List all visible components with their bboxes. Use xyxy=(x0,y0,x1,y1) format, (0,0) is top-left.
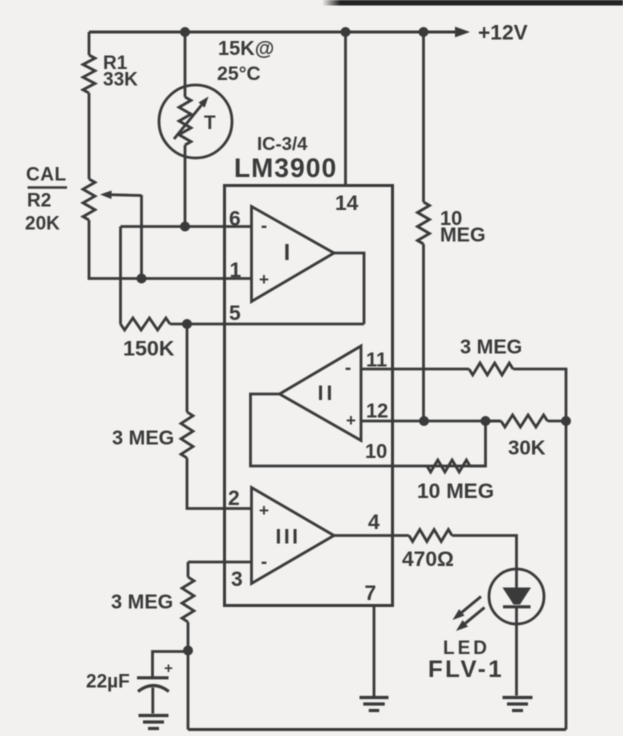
svg-text:2: 2 xyxy=(228,487,240,510)
wire 30K left node xyxy=(486,420,502,423)
wire pin3 row xyxy=(188,561,252,564)
svg-text:-: - xyxy=(261,216,267,237)
wire rail to 10MEG xyxy=(422,32,425,202)
IC U1 LM3900 outline xyxy=(225,186,393,606)
svg-text:22µF: 22µF xyxy=(86,672,130,693)
svg-text:+12V: +12V xyxy=(478,22,528,45)
node rail-thermistor xyxy=(180,27,190,37)
svg-text:3: 3 xyxy=(231,568,243,591)
svg-text:3 MEG: 3 MEG xyxy=(111,592,173,614)
svg-text:6: 6 xyxy=(229,208,241,231)
svg-text:15K@: 15K@ xyxy=(218,38,274,60)
svg-text:1: 1 xyxy=(230,259,242,282)
svg-text:470Ω: 470Ω xyxy=(402,548,454,571)
LED body circle xyxy=(489,569,544,624)
ground cap xyxy=(139,714,169,717)
svg-text:T: T xyxy=(204,113,216,134)
svg-text:R2: R2 xyxy=(27,191,51,212)
LED cathode bar xyxy=(503,605,531,608)
svg-text:CAL: CAL xyxy=(26,165,67,186)
svg-text:20K: 20K xyxy=(25,214,60,235)
resistor 30K xyxy=(501,415,548,427)
svg-text:3 MEG: 3 MEG xyxy=(112,428,174,450)
arrow to +12V xyxy=(455,27,470,38)
svg-text:12: 12 xyxy=(366,401,388,423)
svg-text:+: + xyxy=(346,411,356,430)
resistor 3MEG upper xyxy=(181,412,193,458)
node rail-pin14 xyxy=(341,27,351,37)
op-amp I triangle xyxy=(252,207,335,302)
node 150K-3MEG xyxy=(182,319,192,329)
wire 30K to right node xyxy=(548,420,567,423)
LED light arrow 2 xyxy=(465,608,484,624)
resistor 3MEG right xyxy=(469,363,513,375)
svg-text:30K: 30K xyxy=(508,437,546,460)
svg-text:IC-3/4: IC-3/4 xyxy=(257,133,308,154)
svg-text:150K: 150K xyxy=(123,337,175,361)
wire 3MEG to cap node xyxy=(187,622,190,651)
svg-text:III: III xyxy=(275,526,300,549)
wire bottom rail xyxy=(188,728,566,731)
svg-text:+: + xyxy=(164,660,173,677)
svg-text:25°C: 25°C xyxy=(217,63,261,85)
ground pin7 xyxy=(360,696,389,699)
node 30K-10MEG xyxy=(481,416,491,426)
wire 30K node down to rail xyxy=(565,421,568,730)
LED anode wire xyxy=(515,570,518,589)
node cap junction xyxy=(183,646,193,656)
op-amp III triangle xyxy=(252,488,335,584)
resistor R1 xyxy=(83,55,95,93)
thermistor T body circle xyxy=(159,85,232,158)
wire opamp II output loop xyxy=(251,394,486,466)
wire rail to R1 xyxy=(88,32,91,55)
wire 150K to pin5/feedback xyxy=(170,323,364,326)
svg-text:FLV-1: FLV-1 xyxy=(428,656,504,683)
svg-text:+: + xyxy=(259,270,269,289)
wire 10MEG to pin12 node xyxy=(422,244,425,421)
op-amp II triangle xyxy=(280,346,362,441)
svg-text:LM3900: LM3900 xyxy=(234,153,337,183)
resistor 3MEG lower xyxy=(182,577,194,622)
wire cap to ground xyxy=(151,688,154,714)
LED triangle xyxy=(503,588,532,605)
wire opamp I output feedback xyxy=(334,253,364,324)
capacitor 22uF top plate xyxy=(137,676,169,679)
svg-text:3 MEG: 3 MEG xyxy=(460,337,522,359)
node rail-10MEG xyxy=(419,27,429,37)
wire pin7 to ground xyxy=(373,606,376,697)
wire pin6 row xyxy=(121,225,252,228)
top border bar xyxy=(340,0,623,6)
wire opamp III output xyxy=(334,534,409,537)
wire wiper down xyxy=(140,195,143,279)
wire 470 to LED xyxy=(452,536,517,570)
wire rail to thermistor xyxy=(184,32,187,86)
resistor 10MEG horizontal xyxy=(427,460,470,472)
svg-text:5: 5 xyxy=(229,302,241,325)
wire pin3 down xyxy=(187,562,190,577)
wire pin1 row xyxy=(142,277,252,280)
svg-text:14: 14 xyxy=(335,192,359,215)
LED light arrow 1 xyxy=(462,597,481,613)
resistor 10MEG vertical xyxy=(418,202,430,244)
svg-text:7: 7 xyxy=(365,582,377,605)
capacitor 22uF curved plate xyxy=(138,686,169,692)
svg-text:-: - xyxy=(345,358,351,379)
ground LED xyxy=(503,696,533,699)
LED cathode wire xyxy=(515,607,518,696)
wire 3MEG to 30K node xyxy=(513,369,566,421)
svg-text:I: I xyxy=(284,239,290,265)
svg-text:-: - xyxy=(261,552,267,573)
svg-text:33K: 33K xyxy=(103,70,138,91)
wire pin11 row xyxy=(361,368,469,371)
node 30K-3MEG xyxy=(561,416,571,426)
wire pin12 row xyxy=(361,420,501,423)
wire 10MEG up to node xyxy=(470,421,486,466)
wire R2 to pin1 row xyxy=(89,220,142,279)
svg-text:4: 4 xyxy=(368,511,380,534)
wire +12V rail xyxy=(89,31,455,34)
svg-text:+: + xyxy=(259,501,269,520)
CAL underline xyxy=(28,186,68,189)
wire 3MEG to pin2 row xyxy=(187,458,252,509)
node wiper-pin1 xyxy=(137,274,147,284)
wire left drop to 150K xyxy=(119,227,122,325)
svg-text:10: 10 xyxy=(365,441,387,463)
R2 wiper arrow xyxy=(111,193,141,197)
wire node to cap xyxy=(153,652,189,678)
thermistor zigzag xyxy=(184,86,187,97)
wire rail to pin14 xyxy=(344,32,347,186)
resistor 150K xyxy=(121,318,171,330)
wire cap node to rail xyxy=(187,651,190,730)
svg-text:II: II xyxy=(318,382,336,405)
node thermistor-pin6 xyxy=(180,222,190,232)
wire node to 3MEG xyxy=(186,324,189,412)
wire thermistor to pin6 xyxy=(184,157,187,227)
resistor 470 xyxy=(409,530,452,542)
node 10MEG-pin12 xyxy=(419,416,429,426)
potentiometer R2 xyxy=(83,179,95,220)
wire R1 to R2 xyxy=(88,93,91,179)
svg-text:10 MEG: 10 MEG xyxy=(417,480,494,503)
svg-text:MEG: MEG xyxy=(440,225,486,247)
thermistor arrow xyxy=(174,105,202,139)
